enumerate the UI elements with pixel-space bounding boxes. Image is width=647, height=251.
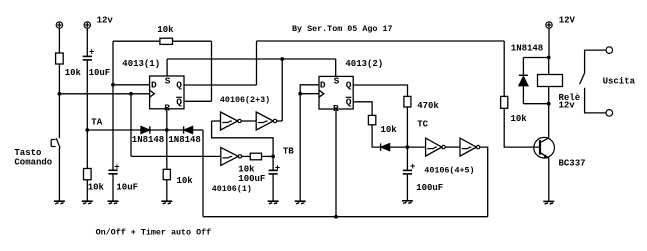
ground switch: [54, 201, 65, 204]
svg-text:By Ser.Tom 05 Ago 17: By Ser.Tom 05 Ago 17: [292, 24, 393, 34]
svg-text:1N8148: 1N8148: [132, 135, 164, 145]
resistor R8 10k base: [501, 96, 508, 108]
svg-text:40106(2+3): 40106(2+3): [220, 95, 270, 105]
inverter U6 40106(4): [426, 138, 446, 156]
svg-text:10k: 10k: [65, 68, 82, 78]
ground R2: [82, 201, 93, 204]
wire Q riser: [256, 41, 258, 85]
wire diode branch top: [523, 57, 548, 59]
inverter U7 40106(5): [460, 138, 480, 156]
relay contact switch: [580, 73, 585, 84]
node TC junction: [406, 145, 410, 149]
terminal circle top: [606, 47, 613, 54]
wire collector: [548, 104, 550, 138]
capacitor C2 10uF D filter: [108, 163, 119, 174]
svg-text:10k: 10k: [381, 125, 398, 135]
svg-text:4013(2): 4013(2): [345, 59, 383, 69]
svg-text:12V: 12V: [559, 15, 576, 25]
svg-text:+: +: [410, 162, 415, 172]
wire: [86, 130, 88, 169]
node S line junction: [280, 57, 284, 61]
node TB junction: [271, 155, 275, 159]
svg-text:10uF: 10uF: [89, 68, 111, 78]
svg-text:+: +: [114, 163, 119, 173]
label Rele 12v: [559, 93, 581, 111]
wire: [112, 174, 114, 201]
svg-text:40106(1): 40106(1): [212, 184, 252, 194]
svg-text:4013(1): 4013(1): [122, 59, 160, 69]
resistor R2 10k TA pulldown: [84, 169, 92, 180]
node relay bottom junction: [547, 102, 551, 106]
wire S pin FF1 riser: [166, 59, 168, 76]
inverter U4 40106(3): [256, 112, 276, 130]
wire: [406, 147, 408, 201]
capacitor C1 10uF power-on: [83, 48, 95, 60]
terminal circle bottom: [606, 110, 613, 117]
wire base resistor drop: [503, 41, 505, 96]
wire D line to FF1: [113, 84, 150, 86]
power symbol +12v left: [56, 22, 62, 28]
wire uscita top: [585, 50, 607, 73]
wire: [86, 180, 88, 201]
wire: [58, 64, 60, 94]
svg-text:10k: 10k: [511, 114, 528, 124]
pushbutton Tasto Comando: [51, 138, 60, 148]
diode D4 1N8148 flyback: [519, 75, 528, 85]
svg-text:10k: 10k: [177, 176, 194, 186]
capacitor C3 100uF TB: [269, 163, 281, 174]
wire set riser: [281, 59, 283, 121]
wire button to inverter input: [130, 94, 132, 157]
wire: [150, 129, 184, 131]
wire uscita bottom: [585, 88, 607, 113]
wire: [58, 148, 60, 201]
wire: [58, 28, 60, 53]
wire Q FF1 out: [184, 84, 257, 86]
svg-text:10k: 10k: [88, 183, 105, 193]
wire: [193, 129, 203, 131]
wire TA line: [87, 129, 141, 131]
wire Q FF2 out: [353, 85, 407, 96]
wire: [86, 28, 88, 56]
wire S line common: [167, 58, 336, 60]
resistor R6 470k: [404, 96, 411, 107]
node relay top junction: [547, 56, 551, 60]
svg-text:Q: Q: [346, 80, 352, 91]
svg-text:D: D: [320, 80, 326, 91]
svg-text:100uF: 100uF: [416, 183, 443, 193]
wire feedback top: [113, 40, 160, 42]
ground C3: [268, 201, 279, 204]
wire: [390, 146, 426, 148]
svg-text:1N8148: 1N8148: [511, 44, 543, 54]
relay K1 coil box: [538, 75, 563, 87]
transistor Q1 BC337: [534, 137, 555, 158]
wire Qbar FF2 out: [353, 102, 372, 116]
wire auto-off drop: [202, 130, 204, 217]
svg-text:10k: 10k: [238, 165, 255, 175]
svg-text:1N8148: 1N8148: [168, 135, 200, 145]
svg-text:470k: 470k: [417, 101, 439, 111]
node D clock gnd junction: [298, 92, 302, 96]
wire: [272, 156, 274, 201]
node clock branch junction: [129, 92, 133, 96]
node R rail junction: [334, 215, 338, 219]
wire: [241, 120, 256, 122]
wire: [173, 40, 212, 42]
wire: [406, 107, 408, 147]
wire TB riser: [212, 121, 274, 156]
wire bottom rail: [203, 216, 488, 218]
wire D FF2: [300, 85, 319, 94]
wire: [131, 155, 221, 157]
svg-text:TC: TC: [417, 120, 428, 130]
label Tasto Comando: [14, 148, 52, 167]
svg-text:Q: Q: [176, 97, 182, 108]
wire: [166, 180, 168, 202]
wire diode branch bottom: [523, 103, 548, 105]
ground FF2 inputs: [295, 201, 306, 204]
svg-text:TB: TB: [283, 147, 294, 157]
node button junction: [58, 92, 62, 96]
svg-text:S: S: [334, 75, 340, 86]
svg-text:10k: 10k: [157, 25, 174, 35]
wire: [58, 94, 60, 138]
wire: [212, 120, 221, 122]
diode D1 1N8148: [141, 126, 150, 133]
wire auto-off output: [480, 147, 488, 217]
inverter U3 40106(2): [221, 112, 242, 130]
wire feedback D vertical: [112, 41, 114, 85]
wire: [504, 108, 540, 147]
svg-text:S: S: [165, 75, 171, 86]
svg-text:Uscita: Uscita: [603, 77, 636, 87]
ground C2: [108, 201, 119, 204]
wire clock FF2: [300, 93, 319, 95]
svg-text:Q: Q: [176, 80, 182, 91]
node reset diode junction: [165, 128, 169, 132]
inverter U2 40106(1): [221, 147, 242, 165]
wire R pin FF1 down: [166, 109, 168, 130]
wire: [372, 125, 380, 147]
power symbol 12V right: [546, 22, 552, 28]
wire: [277, 120, 283, 122]
wire clock line FF1: [59, 93, 149, 95]
svg-text:+: +: [275, 163, 280, 173]
svg-text:+: +: [89, 48, 94, 58]
resistor R1 10k pullup: [56, 53, 64, 64]
power symbol 12v mid: [84, 22, 90, 28]
wire: [299, 94, 301, 202]
svg-text:40106(4+5): 40106(4+5): [424, 166, 474, 176]
ground C4: [402, 201, 413, 204]
wire emitter: [548, 158, 550, 201]
svg-text:Comando: Comando: [14, 158, 52, 168]
node TA junction: [85, 128, 89, 132]
wire: [522, 58, 524, 76]
svg-text:12v: 12v: [559, 101, 576, 111]
resistor R4 10k reset pulldown: [163, 169, 170, 179]
svg-text:100uF: 100uF: [238, 174, 265, 184]
wire Qbar FF1 riser: [211, 41, 213, 101]
svg-text:12v: 12v: [97, 15, 114, 25]
wire: [548, 58, 550, 104]
resistor R7 10k discharge: [368, 115, 375, 124]
svg-text:Q: Q: [346, 97, 352, 108]
ground R4: [161, 201, 172, 204]
svg-text:On/Off + Timer auto Off: On/Off + Timer auto Off: [96, 228, 212, 238]
svg-text:10uF: 10uF: [116, 183, 138, 193]
diode D3 1N8148 discharge: [381, 143, 390, 150]
wire: [86, 61, 88, 131]
resistor R3 10k feedback: [160, 38, 173, 44]
op-amp U1 4013(1) flip-flop box: [150, 75, 184, 113]
svg-text:TA: TA: [91, 117, 102, 127]
wire: [262, 155, 274, 157]
wire S pin FF2 riser: [335, 59, 337, 76]
wire: [548, 28, 550, 57]
resistor R5 10k TB: [250, 153, 261, 160]
capacitor C4 100uF TC: [403, 162, 416, 174]
wire: [166, 130, 168, 169]
wire R FF2 down: [335, 109, 337, 217]
wire: [242, 155, 251, 157]
wire: [445, 146, 460, 148]
wire top rail to base resistor: [257, 40, 505, 42]
wire: [522, 86, 524, 104]
op-amp U5 4013(2) flip-flop box: [319, 75, 353, 113]
wire: [112, 85, 114, 170]
node D FF1 junction: [111, 83, 115, 87]
wire Qbar FF1: [184, 100, 212, 102]
svg-text:BC337: BC337: [559, 159, 586, 169]
diode D2 1N8148: [184, 126, 193, 133]
ground emitter: [543, 201, 554, 204]
svg-text:D: D: [151, 80, 157, 91]
